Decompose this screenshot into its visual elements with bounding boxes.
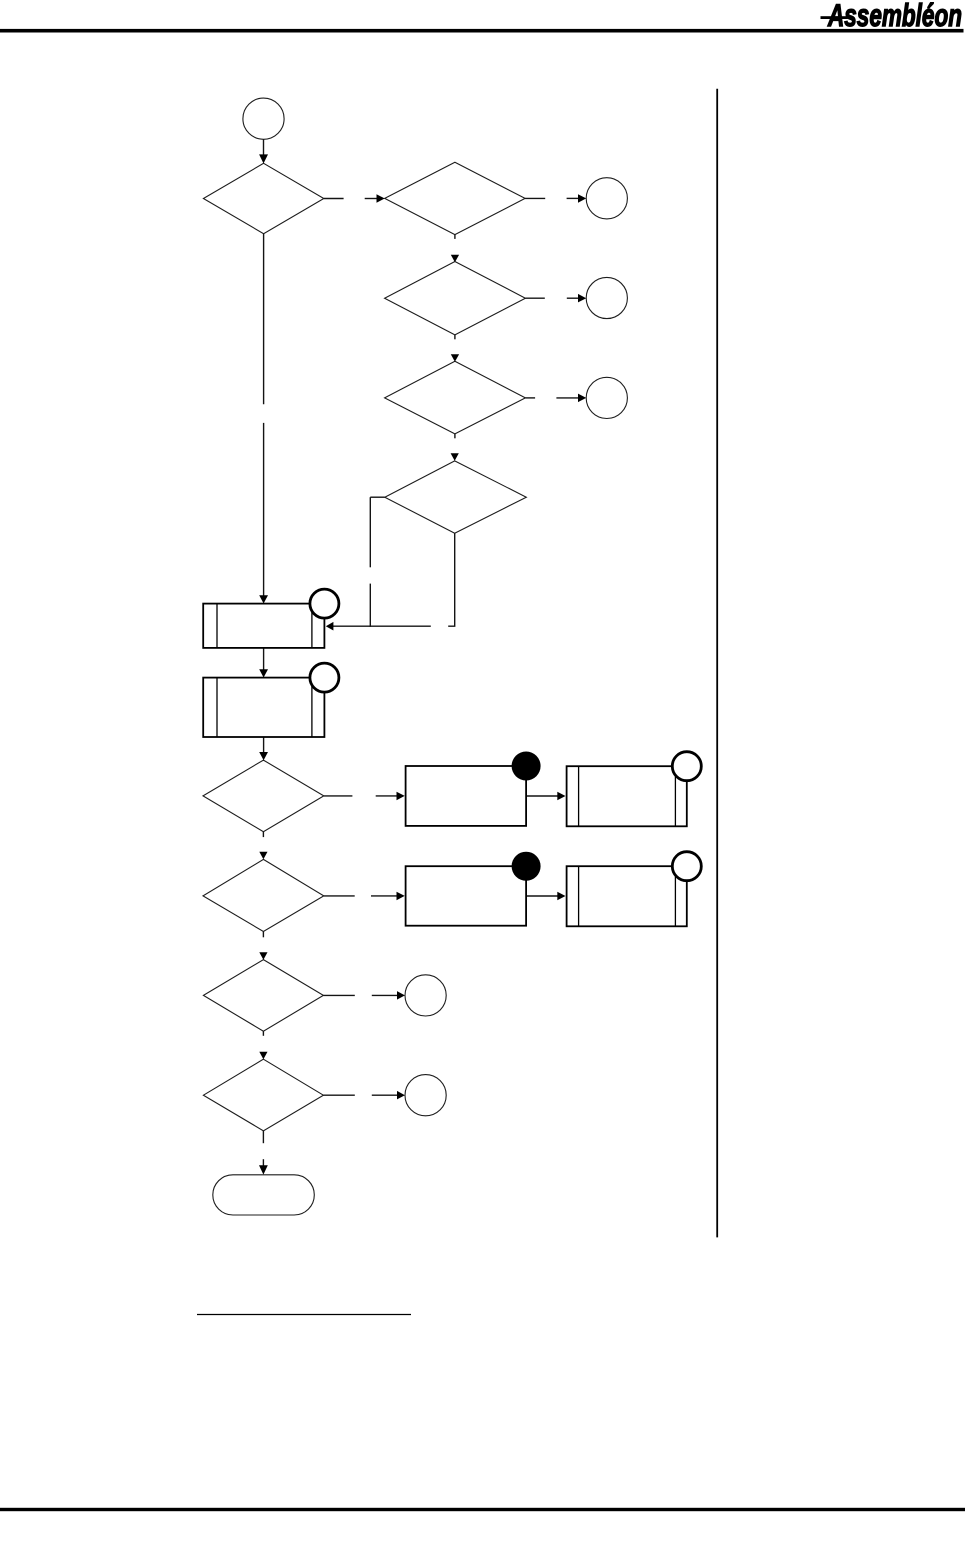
decision diamond D2: [385, 162, 525, 234]
connector circle F: [405, 1075, 446, 1116]
decision diamond D1: [203, 163, 323, 233]
decision diamond D4: [385, 361, 526, 434]
predefined process R2: [567, 766, 687, 826]
decision diamond D8: [203, 960, 323, 1032]
node circle on R4 corner: [672, 852, 701, 881]
arrowhead into C: [578, 294, 586, 303]
Box2 left bar: [216, 678, 218, 737]
wire arrow shaft into D: [556, 397, 579, 399]
arrowhead into R3: [397, 892, 405, 901]
wire A to D1: [263, 139, 265, 156]
arrowhead into B: [578, 194, 586, 203]
arrowhead into D4 top: [451, 354, 459, 362]
decision diamond D9: [203, 1059, 323, 1131]
node circle on R2 corner: [672, 752, 701, 781]
wire D6 right stub: [324, 795, 353, 797]
wire arrow shaft into E: [372, 994, 398, 996]
wire D4 right stub: [525, 397, 535, 399]
arrowhead into D5 top: [451, 453, 459, 461]
arrowhead into terminator top: [259, 1165, 268, 1174]
wire D5 left elbow vertical lower: [369, 584, 371, 627]
predefined process Box2: [203, 678, 324, 737]
R4 right bar: [674, 866, 676, 926]
logo Assembleon: [821, 0, 963, 33]
connector circle B: [586, 178, 627, 219]
process box R1: [406, 766, 526, 826]
start circle A: [243, 98, 284, 139]
arrowhead into D8 top: [259, 952, 267, 960]
wire D7 right stub: [324, 895, 355, 897]
connector circle E: [405, 975, 446, 1016]
arrowhead into E: [397, 991, 405, 1000]
decision diamond D6: [203, 760, 324, 832]
arrowhead into D3 top: [451, 255, 459, 262]
wire D1 long vertical upper: [263, 234, 265, 405]
wire arrow shaft into C: [567, 297, 580, 299]
wire D2 right stub: [525, 197, 545, 199]
arrowhead into Box1 right (return): [326, 622, 334, 631]
wire D6 bottom tick: [262, 832, 264, 837]
arrowhead into R1: [397, 792, 405, 801]
right column vertical line: [716, 89, 718, 1238]
decision diamond D3: [385, 262, 526, 335]
wire D2 bottom tick: [454, 235, 456, 239]
filled node circle on R3 corner: [512, 852, 541, 881]
wire R1 to R2 shaft: [526, 795, 558, 797]
Box1 right bar: [311, 604, 313, 648]
wire D1 right stub: [324, 198, 344, 200]
filled node circle on R1 corner: [512, 752, 541, 781]
arrowhead into Box1 top: [259, 595, 268, 603]
Box2 right bar: [311, 678, 313, 737]
R2 right bar: [674, 766, 676, 826]
wire arrow shaft into R1: [376, 795, 398, 797]
wire D9 bottom upper: [262, 1131, 264, 1143]
node circle on Box2 corner: [310, 663, 339, 692]
wire R3 to R4 shaft: [526, 895, 558, 897]
wire arrow shaft into D2: [365, 198, 378, 200]
wire D5 left elbow horizontal: [370, 496, 385, 498]
wire arrow shaft into F: [372, 1094, 398, 1096]
predefined process Box1: [203, 604, 324, 648]
wire Box2 to D6: [263, 737, 265, 753]
connector circle D: [586, 377, 627, 418]
wire D8 right stub: [323, 994, 354, 996]
connector circle C: [586, 277, 627, 318]
wire D5 left elbow vertical upper: [369, 497, 371, 567]
top header rule: [0, 29, 964, 33]
wire D7 bottom tick: [262, 932, 264, 938]
wire D8 bottom tick: [262, 1031, 264, 1036]
wire D3 bottom tick: [454, 335, 456, 339]
Box1 left bar: [216, 604, 218, 648]
wire arrow shaft into R3: [371, 895, 398, 897]
terminator (end): [213, 1175, 314, 1215]
predefined process R4: [567, 866, 687, 926]
wire D5 bottom vertical: [448, 533, 455, 626]
arrowhead into D: [578, 394, 586, 403]
arrowhead into D7 top: [259, 852, 267, 859]
arrowhead into R4: [557, 892, 565, 901]
arrowhead into D2 left: [377, 194, 385, 203]
arrowhead into F: [397, 1091, 405, 1100]
wire return line to Box1: [333, 625, 431, 627]
arrowhead into R2: [557, 792, 565, 801]
wire D9 bottom lower: [262, 1159, 264, 1166]
arrowhead into Box2 top: [259, 669, 268, 677]
arrowhead into D9 top: [259, 1052, 267, 1060]
decision diamond D5: [385, 461, 527, 533]
R2 left bar: [578, 766, 580, 826]
wire D3 right stub: [525, 297, 544, 299]
footnote rule: [197, 1314, 411, 1316]
wire D1 long vertical lower: [263, 423, 265, 596]
bottom footer rule: [0, 1508, 965, 1511]
logo strike dash through A: [821, 16, 848, 19]
wire D4 bottom tick: [454, 434, 456, 438]
node circle on Box1 corner: [310, 589, 339, 618]
process box R3: [406, 866, 526, 926]
R4 left bar: [578, 866, 580, 926]
decision diamond D7: [203, 859, 324, 931]
wire Box1 to Box2: [263, 648, 265, 670]
arrowhead into D6 top: [259, 752, 268, 760]
wire D9 right stub: [323, 1094, 354, 1096]
wire arrow shaft into B: [567, 197, 580, 199]
arrowhead into D1 top: [259, 154, 268, 163]
